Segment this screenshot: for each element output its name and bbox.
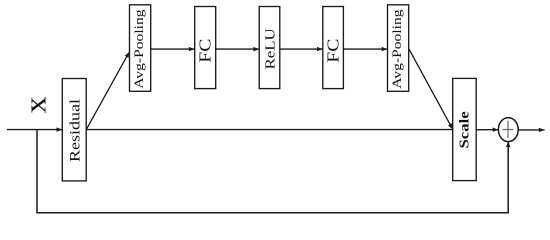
svg-text:FC: FC <box>324 39 342 63</box>
wire input main line <box>7 129 62 131</box>
block Avg-Pooling 1 <box>130 5 151 92</box>
adder circle-plus <box>498 118 518 142</box>
wire Avg-Pooling1 to FC1 <box>151 48 195 50</box>
wire main path Residual to Scale <box>86 129 453 131</box>
svg-text:Avg-Pooling: Avg-Pooling <box>390 9 404 88</box>
wire FC2 to Avg-Pooling2 <box>343 48 387 50</box>
block ReLU <box>259 7 280 89</box>
block Avg-Pooling 2 <box>388 5 409 92</box>
svg-text:Avg-Pooling: Avg-Pooling <box>132 9 146 88</box>
wire arrow into Residual <box>57 127 63 131</box>
wire diagonal up to Avg-Pooling <box>86 54 128 129</box>
wire Scale to adder <box>476 129 498 131</box>
wire output <box>518 129 544 131</box>
block FC 1 <box>195 7 216 89</box>
svg-text:Scale: Scale <box>457 111 472 148</box>
svg-text:FC: FC <box>196 39 214 63</box>
wire ReLU to FC2 <box>280 48 323 50</box>
svg-text:ReLU: ReLU <box>263 28 278 69</box>
wire arrow up into adder <box>506 141 510 147</box>
svg-text:x: x <box>19 96 53 113</box>
wire FC1 to ReLU <box>216 48 260 50</box>
svg-text:Residual: Residual <box>66 99 83 162</box>
block Residual <box>62 79 86 181</box>
block FC 2 <box>323 7 344 89</box>
block Scale <box>453 78 477 180</box>
wire diagonal down to Scale <box>409 49 452 127</box>
wire skip connection (bottom) <box>37 130 508 213</box>
